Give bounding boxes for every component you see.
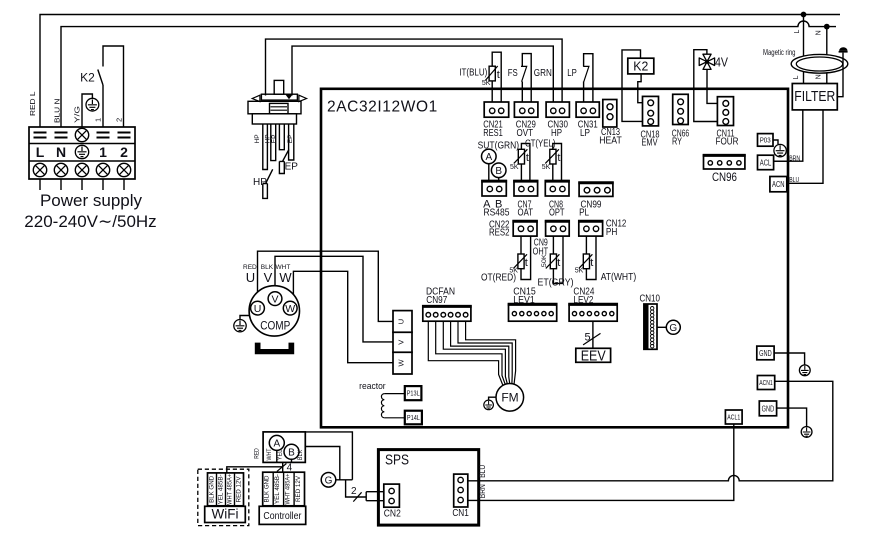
WiFi box (205, 506, 246, 522)
svg-text:ET(GRY): ET(GRY) (538, 277, 574, 289)
connector CN30 HP (546, 102, 569, 139)
thermistor OT(RED) loop (509, 236, 530, 279)
svg-text:BLU N: BLU N (53, 99, 62, 124)
HP switch tube 1 (263, 124, 273, 198)
svg-text:W: W (285, 303, 295, 315)
terminal P13L (405, 386, 422, 400)
connector CN7 OAT (513, 181, 538, 219)
wire fan bundle 6 (466, 321, 516, 384)
connector CN1 (452, 474, 469, 519)
chassis earth top right (839, 47, 848, 52)
terminal stubs (40, 179, 124, 190)
earth GND lower (801, 427, 812, 438)
wire L down to FILTER (803, 15, 805, 85)
svg-text:EP: EP (271, 135, 278, 144)
svg-text:GND: GND (759, 349, 772, 358)
thermistor OPT loop (542, 144, 562, 181)
svg-text:A: A (273, 439, 280, 450)
wire LEV2 to EEV with 5-wire slash (583, 321, 600, 348)
earth GND upper (799, 365, 810, 376)
junction block A/B (263, 432, 305, 463)
connector CN99 PL (578, 182, 613, 218)
label HP vertical 2 (265, 134, 272, 143)
label SUT(GRN) (478, 140, 520, 151)
wire K2 to CN18 bottom pin (622, 50, 648, 122)
wire fan bundle 2 (436, 321, 506, 384)
svg-text:B: B (288, 448, 295, 459)
terminal ACN1 (757, 376, 774, 390)
connector CN10 (644, 304, 657, 349)
svg-text:GRN: GRN (534, 68, 552, 79)
svg-text:BRN: BRN (478, 484, 487, 498)
label RED vertical (254, 448, 261, 459)
svg-text:220-240V∼/50Hz: 220-240V∼/50Hz (24, 212, 156, 231)
label IT(BLU) (459, 68, 487, 79)
svg-text:HP: HP (551, 127, 562, 139)
connector W on PCB (393, 352, 412, 374)
svg-text:YEL 485B-: YEL 485B- (274, 474, 281, 504)
svg-text:WHT 485A+: WHT 485A+ (285, 473, 292, 504)
svg-text:U: U (396, 319, 405, 324)
svg-text:L: L (36, 144, 45, 160)
svg-text:CT(YEL): CT(YEL) (525, 138, 556, 149)
label BRN (789, 153, 800, 162)
wire L (RED) from terminal L to top right (40, 15, 840, 128)
svg-text:Controller: Controller (263, 510, 301, 522)
terminal labels L N earth 1 2 (36, 144, 128, 160)
svg-text:5K: 5K (510, 164, 519, 171)
svg-text:CN96: CN96 (712, 172, 737, 184)
svg-text:PH: PH (606, 226, 618, 238)
connector CN29 OVT (514, 102, 538, 139)
label EP vertical 4 (287, 135, 294, 144)
HP/EP pressure sensor assembly (248, 80, 307, 124)
svg-text:OT(RED): OT(RED) (481, 271, 516, 283)
svg-text:RY: RY (672, 136, 682, 148)
label Magetic ring (763, 47, 796, 57)
label WHT vertical (266, 448, 273, 460)
svg-text:SPS: SPS (385, 452, 409, 469)
earth COMP (234, 320, 246, 332)
svg-text:BRN: BRN (789, 153, 800, 162)
wire compressor W to PCB (293, 271, 393, 362)
connector V on PCB (393, 332, 412, 352)
4-way valve 4V (699, 54, 728, 69)
svg-text:P13L: P13L (407, 389, 420, 398)
label reactor (359, 381, 386, 392)
svg-text:t: t (557, 152, 560, 164)
svg-text:2AC32I12WO1: 2AC32I12WO1 (327, 99, 438, 116)
connector RS485 A B (481, 181, 509, 219)
svg-text:reactor: reactor (359, 381, 386, 392)
svg-text:RED: RED (254, 448, 261, 459)
label AT(WHT) (601, 271, 637, 283)
svg-text:W: W (396, 359, 405, 367)
connector CN22 RES2 (512, 221, 537, 237)
label 220-240V/50Hz (24, 212, 156, 231)
label V (264, 270, 273, 285)
wire GND lower to earth (777, 408, 807, 426)
wire fan bundle 1 (428, 321, 503, 385)
label 5K (482, 80, 491, 87)
label L lower (793, 75, 800, 79)
svg-text:P14L: P14L (407, 413, 420, 422)
svg-text:FOUR: FOUR (716, 136, 739, 148)
connector CN8 OPT (545, 181, 570, 219)
svg-text:CN10: CN10 (639, 293, 660, 305)
label BLU (789, 175, 799, 184)
terminal ACL (758, 155, 790, 170)
svg-text:Magetic ring: Magetic ring (763, 47, 796, 57)
terminal ACL1 (725, 410, 742, 424)
wire fan bundle 3 (443, 321, 507, 384)
svg-text:PL: PL (579, 206, 589, 218)
label CT(YEL) (525, 138, 556, 149)
Controller connector columns (263, 472, 305, 506)
wire block top to G junction (305, 432, 352, 480)
label OT(RED) (481, 271, 516, 283)
wire P03 to earth (773, 140, 778, 144)
connector CN13 HEAT (599, 100, 622, 147)
svg-text:P03: P03 (760, 137, 771, 144)
label HP (253, 177, 267, 188)
label CN12 PH (606, 217, 627, 238)
label Power supply (40, 191, 143, 210)
svg-text:HP: HP (253, 177, 267, 188)
svg-text:HP: HP (254, 134, 261, 143)
reactor coil (381, 394, 404, 418)
svg-text:L: L (793, 75, 800, 79)
label ET(GRY) (538, 277, 574, 289)
Controller box (259, 506, 306, 524)
svg-text:N: N (56, 144, 66, 160)
svg-text:RED 12V: RED 12V (235, 476, 242, 503)
earth Y/G (86, 98, 99, 111)
svg-text:2: 2 (351, 486, 357, 497)
terminal P14L (405, 411, 422, 425)
svg-text:Power supply: Power supply (40, 191, 143, 210)
connector CN9 OHT (545, 221, 570, 237)
thermistor ET(GRY) loop (541, 236, 563, 283)
wire K2 to CN18 top pin (638, 74, 648, 103)
label DCFAN CN97 (426, 285, 455, 306)
svg-text:t: t (526, 152, 529, 164)
earth P03 (774, 144, 786, 156)
svg-text:ACL: ACL (760, 157, 772, 167)
svg-text:L: L (794, 29, 801, 33)
svg-text:RED L: RED L (28, 92, 37, 117)
label YEL vertical (276, 449, 283, 460)
svg-text:EEV: EEV (581, 348, 606, 364)
label WHT (275, 264, 290, 271)
WiFi connector columns (208, 473, 244, 506)
svg-text:K2: K2 (80, 71, 95, 85)
wire GND to earth (774, 353, 805, 365)
label CN10 (639, 293, 660, 305)
svg-text:CN1: CN1 (452, 508, 469, 519)
svg-text:FS: FS (508, 68, 518, 79)
node junction N (824, 24, 830, 30)
node junction L (801, 12, 807, 18)
label N upper (815, 30, 822, 35)
svg-text:2: 2 (120, 144, 128, 160)
svg-text:Y/G: Y/G (73, 106, 82, 123)
svg-text:BLK: BLK (297, 449, 304, 460)
svg-text:RES2: RES2 (489, 226, 510, 238)
wire GRN sensor to CN30 left pin (292, 46, 553, 102)
node G (CN10) (666, 320, 680, 334)
node A circle (482, 149, 497, 180)
connector U on PCB (393, 311, 412, 333)
label RED (243, 264, 257, 271)
label W (279, 270, 292, 285)
svg-text:RED 12V: RED 12V (295, 475, 302, 502)
label EP vertical 3 (271, 135, 278, 144)
wire CN10 to G (657, 326, 666, 328)
relay K2 box (628, 58, 654, 74)
svg-text:YEL 485B-: YEL 485B- (217, 474, 224, 504)
svg-text:AT(WHT): AT(WHT) (601, 271, 637, 283)
earth FM (484, 400, 494, 410)
label EP (285, 162, 299, 173)
svg-text:W: W (279, 270, 292, 285)
connector CN97 DCFAN (422, 306, 472, 322)
wire BLU ACN1 to SPS CN1 with hop (463, 381, 833, 481)
wire BLU FILTER to ACN (787, 110, 823, 183)
svg-text:CN2: CN2 (384, 509, 401, 520)
svg-text:1: 1 (99, 144, 107, 160)
label Y/G vertical (73, 106, 82, 123)
svg-text:YEL: YEL (276, 449, 283, 460)
svg-text:U: U (254, 303, 262, 315)
svg-text:1: 1 (94, 118, 103, 122)
label CN9 OHT (533, 237, 549, 258)
svg-text:OPT: OPT (549, 206, 565, 218)
label N lower (816, 74, 823, 79)
PCB board outline 2AC32I12WO1 (321, 89, 788, 428)
connector CN11 FOUR (716, 97, 739, 148)
svg-text:GND: GND (762, 404, 775, 413)
label FS (508, 68, 518, 79)
svg-text:N: N (815, 30, 822, 35)
compressor mounting bracket (255, 343, 294, 355)
svg-text:ACL1: ACL1 (727, 415, 740, 422)
svg-text:t: t (525, 257, 528, 269)
tube 4 (289, 124, 294, 160)
svg-text:U: U (246, 270, 255, 285)
magnetic ring (791, 54, 848, 73)
svg-text:EP: EP (285, 162, 299, 173)
thermistor IT(BLU) loop (485, 52, 501, 102)
label BLK (261, 264, 274, 271)
node B circle (block) (284, 444, 299, 462)
svg-text:BLU: BLU (789, 175, 799, 184)
svg-text:N: N (816, 74, 823, 79)
connector CN18 EMV (641, 96, 660, 148)
wire fan bundle 4 (451, 321, 510, 383)
svg-text:EMV: EMV (642, 137, 658, 149)
svg-text:HEAT: HEAT (599, 134, 622, 146)
svg-text:FILTER: FILTER (794, 88, 835, 105)
svg-text:BLU: BLU (478, 465, 487, 478)
svg-text:WHT: WHT (266, 448, 273, 460)
terminal GND lower (759, 401, 776, 416)
svg-text:5K: 5K (482, 80, 491, 87)
svg-text:RS485: RS485 (484, 206, 510, 218)
svg-text:t: t (590, 257, 593, 269)
svg-text:EP: EP (287, 135, 294, 144)
SPS power supply box (378, 450, 478, 525)
label U (246, 270, 255, 285)
wire BRN FILTER to ACL (774, 110, 803, 161)
compressor COMP (249, 286, 299, 336)
terminal top row bars (34, 128, 131, 141)
fan motor FM (496, 384, 524, 412)
label BRN vertical (478, 484, 487, 498)
svg-text:G: G (669, 323, 677, 334)
label 2 vertical (115, 118, 124, 122)
label BLU N vertical (53, 99, 62, 124)
node B circle (491, 163, 506, 181)
label CN24 LEV2 (573, 285, 594, 306)
svg-text:2: 2 (115, 118, 124, 122)
connector CN66 RY (672, 94, 690, 147)
wire fan bundle 5 (458, 321, 512, 384)
svg-text:CN97: CN97 (426, 294, 447, 306)
wire HP sensor to CN30 right pin (266, 39, 563, 102)
EEV box (576, 348, 611, 364)
connector CN12 PH (578, 221, 603, 237)
terminal ACN (770, 177, 787, 192)
pressure switch LP loop (583, 54, 593, 102)
label GRN (534, 68, 552, 79)
svg-text:LP: LP (580, 127, 590, 139)
svg-text:A: A (485, 152, 492, 163)
thermistor OAT loop (510, 144, 530, 181)
connector CN15 LEV1 (508, 304, 558, 322)
svg-text:COMP: COMP (260, 321, 290, 333)
svg-text:FM: FM (501, 391, 518, 405)
label BLU vertical (478, 465, 487, 478)
wire block right to G junction (305, 447, 340, 480)
connector CN24 LEV2 (568, 304, 618, 322)
svg-text:OVT: OVT (517, 127, 534, 139)
wire compressor V to PCB (275, 256, 393, 342)
svg-text:IT(BLU): IT(BLU) (459, 68, 487, 79)
terminal GND upper (757, 346, 774, 360)
terminal P03 (758, 134, 774, 147)
svg-text:V: V (396, 340, 405, 345)
wire COMP to earth (240, 316, 249, 320)
wire 4V to CN11 top (707, 69, 722, 103)
svg-text:V: V (264, 270, 273, 285)
svg-text:ACN: ACN (772, 179, 785, 189)
node A circle (block) (269, 435, 284, 462)
svg-text:4V: 4V (715, 55, 728, 70)
connector CN31 LP (576, 102, 599, 139)
wire 4V left loop to CN11 bottom (694, 50, 722, 122)
svg-text:OAT: OAT (518, 206, 534, 218)
tube 2 (271, 124, 276, 161)
svg-text:WHT 485A+: WHT 485A+ (226, 474, 233, 505)
svg-text:G: G (325, 476, 333, 487)
connector CN96 (703, 155, 746, 184)
relay contact K2 (power) (80, 46, 123, 127)
svg-text:5K: 5K (575, 267, 584, 274)
wire FILTER right to chassis earth (837, 53, 843, 97)
wire BRN ACL1 to SPS CN1 (463, 424, 734, 500)
svg-text:50K: 50K (541, 253, 548, 267)
label CN22 RES2 (489, 219, 510, 239)
WiFi dashed enclosure (198, 469, 249, 525)
svg-text:LP: LP (567, 68, 577, 79)
svg-text:t: t (497, 69, 500, 81)
label HP vertical 1 (254, 134, 261, 143)
svg-text:5K: 5K (542, 164, 551, 171)
wire N down to FILTER (826, 27, 828, 85)
label BLK vertical (297, 449, 304, 460)
connector CN2 (384, 484, 401, 519)
svg-text:SUT(GRN): SUT(GRN) (478, 140, 520, 151)
label RED L vertical (28, 92, 37, 117)
power supply terminal block (29, 127, 135, 179)
svg-text:WiFi: WiFi (212, 507, 239, 522)
wire FM to earth (489, 397, 496, 400)
FILTER box (792, 84, 837, 110)
terminal bottom row screws (33, 163, 130, 176)
EP switch tube 3 (279, 124, 289, 174)
label LP (567, 68, 577, 79)
wire compressor U to PCB (258, 251, 394, 321)
node G (321, 473, 352, 488)
wire G junction to SPS CN2 fork, 2-wire slash (346, 480, 389, 502)
svg-text:V: V (271, 293, 278, 305)
label 1 vertical (94, 118, 103, 122)
float switch FS loop (521, 54, 531, 102)
connector CN21 RES1 (483, 102, 508, 139)
svg-text:BLK GND: BLK GND (208, 476, 215, 503)
wire N (BLU) from terminal N to top right with hop over L (61, 21, 836, 127)
svg-text:5: 5 (585, 332, 591, 344)
wire 4-wire cable from block to Controller (227, 462, 293, 473)
thermistor AT(WHT) loop (575, 236, 596, 279)
label CN15 LEV1 (513, 285, 536, 306)
svg-text:ACN1: ACN1 (759, 380, 773, 387)
label L upper (794, 29, 801, 33)
wire Y/G to earth (82, 94, 92, 127)
svg-text:B: B (495, 166, 502, 177)
svg-text:K2: K2 (633, 59, 648, 74)
svg-text:t: t (557, 257, 560, 269)
svg-text:RES1: RES1 (483, 127, 503, 139)
svg-text:BLK GND: BLK GND (264, 475, 271, 502)
